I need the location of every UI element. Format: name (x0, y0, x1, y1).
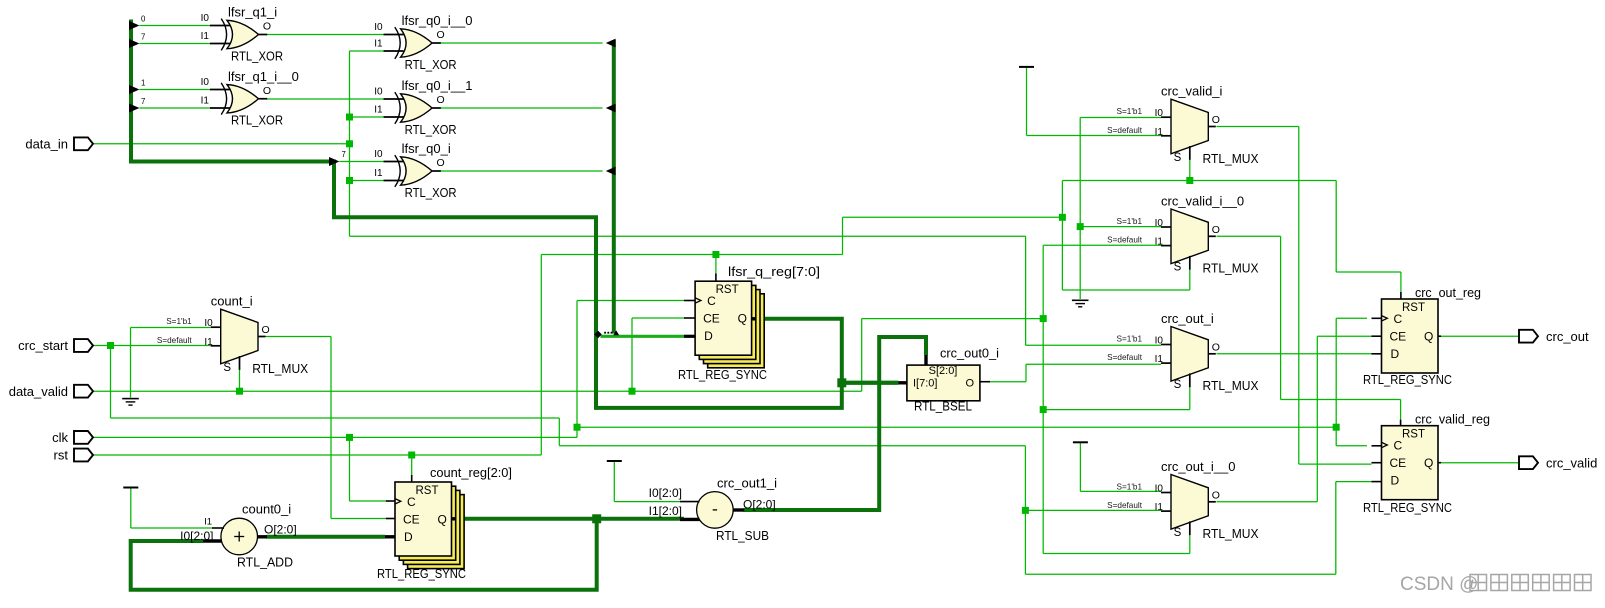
svg-text:0: 0 (141, 15, 146, 24)
svg-text:O[2:0]: O[2:0] (743, 498, 776, 512)
svg-text:data_valid: data_valid (9, 384, 68, 399)
svg-text:7: 7 (141, 97, 145, 106)
svg-text:RTL_XOR: RTL_XOR (405, 57, 457, 72)
svg-text:O: O (1212, 489, 1220, 501)
svg-text:RTL_REG_SYNC: RTL_REG_SYNC (678, 367, 767, 382)
svg-text:O: O (262, 324, 270, 336)
svg-text:RTL_MUX: RTL_MUX (1203, 378, 1259, 393)
svg-text:count0_i: count0_i (242, 502, 291, 517)
svg-text:data_in: data_in (25, 137, 68, 152)
svg-text:S: S (223, 362, 231, 374)
svg-text:I1: I1 (201, 31, 210, 42)
svg-text:crc_out_i: crc_out_i (1161, 311, 1214, 326)
svg-text:I1: I1 (1155, 237, 1164, 248)
svg-text:CE: CE (403, 512, 420, 526)
svg-text:I1: I1 (374, 168, 383, 179)
svg-text:S=default: S=default (1107, 126, 1143, 135)
svg-text:I1: I1 (374, 104, 383, 115)
svg-text:I[7:0]: I[7:0] (913, 378, 937, 390)
svg-text:S=1'b1: S=1'b1 (1117, 217, 1143, 226)
svg-text:S=default: S=default (1107, 236, 1143, 245)
svg-text:S: S (1174, 379, 1182, 391)
svg-text:O: O (1212, 341, 1220, 353)
svg-text:S: S (1174, 527, 1182, 539)
svg-text:C: C (1394, 439, 1403, 453)
svg-text:count_i: count_i (211, 294, 253, 309)
svg-text:crc_out_reg: crc_out_reg (1415, 285, 1481, 300)
svg-text:O: O (966, 378, 975, 390)
svg-text:1: 1 (141, 79, 145, 88)
svg-text:I1[2:0]: I1[2:0] (649, 504, 682, 518)
svg-text:I1: I1 (1155, 502, 1164, 513)
svg-text:RTL_XOR: RTL_XOR (405, 185, 457, 200)
svg-text:RST: RST (716, 284, 739, 296)
svg-text:I0: I0 (204, 318, 213, 329)
svg-text:D: D (404, 530, 413, 544)
svg-text:D: D (704, 329, 713, 343)
svg-text:RTL_MUX: RTL_MUX (1203, 261, 1259, 276)
svg-text:crc_valid_i__0: crc_valid_i__0 (1161, 194, 1244, 209)
svg-text:RTL_BSEL: RTL_BSEL (914, 399, 972, 414)
svg-text:I0: I0 (1155, 336, 1164, 347)
svg-text:rst: rst (54, 448, 69, 463)
svg-text:RTL_MUX: RTL_MUX (1203, 151, 1259, 166)
svg-text:lfsr_q0_i__1: lfsr_q0_i__1 (402, 78, 473, 93)
svg-text:Q: Q (1424, 456, 1433, 470)
svg-text:Q: Q (438, 512, 447, 526)
svg-text:lfsr_q0_i: lfsr_q0_i (402, 141, 451, 156)
svg-text:S: S (1174, 152, 1182, 164)
svg-text:C: C (707, 294, 716, 308)
svg-text:RTL_REG_SYNC: RTL_REG_SYNC (1363, 372, 1452, 387)
svg-text:S[2:0]: S[2:0] (929, 365, 958, 377)
svg-text:CE: CE (703, 312, 720, 326)
svg-text:I1: I1 (374, 38, 383, 49)
svg-text:RST: RST (416, 485, 439, 497)
svg-text:RTL_XOR: RTL_XOR (231, 113, 283, 128)
svg-text:crc_valid_i: crc_valid_i (1161, 84, 1223, 99)
svg-text:I0: I0 (201, 77, 210, 88)
svg-text:RTL_MUX: RTL_MUX (1203, 526, 1259, 541)
svg-text:crc_out0_i: crc_out0_i (940, 346, 999, 361)
svg-text:D: D (1391, 474, 1400, 488)
svg-text:D: D (1391, 347, 1400, 361)
svg-text:C: C (1394, 312, 1403, 326)
svg-text:I1: I1 (201, 95, 210, 106)
svg-text:lfsr_q_reg[7:0]: lfsr_q_reg[7:0] (728, 264, 820, 279)
svg-text:S=1'b1: S=1'b1 (166, 317, 192, 326)
svg-text:I0: I0 (1155, 484, 1164, 495)
svg-text:RST: RST (1402, 302, 1425, 314)
svg-text:I0: I0 (1155, 108, 1164, 119)
svg-text:I0[2:0]: I0[2:0] (180, 529, 213, 543)
svg-text:S=1'b1: S=1'b1 (1117, 335, 1143, 344)
svg-text:Q: Q (1424, 329, 1433, 343)
svg-text:crc_out_i__0: crc_out_i__0 (1161, 459, 1235, 474)
svg-text:RTL_REG_SYNC: RTL_REG_SYNC (1363, 500, 1452, 515)
svg-text:RST: RST (1402, 429, 1425, 441)
svg-text:I1: I1 (1155, 354, 1164, 365)
svg-text:I0[2:0]: I0[2:0] (649, 486, 682, 500)
svg-text:O: O (263, 21, 271, 33)
svg-text:I0: I0 (374, 86, 383, 97)
svg-text:O: O (437, 157, 445, 169)
svg-text:CSDN @: CSDN @ (1400, 574, 1478, 595)
svg-text:lfsr_q0_i__0: lfsr_q0_i__0 (402, 13, 473, 28)
svg-text:7: 7 (141, 33, 145, 42)
svg-text:RTL_XOR: RTL_XOR (405, 122, 457, 137)
svg-text:RTL_SUB: RTL_SUB (716, 528, 769, 543)
svg-text:O: O (1212, 224, 1220, 236)
svg-text:I0: I0 (1155, 218, 1164, 229)
svg-text:RTL_XOR: RTL_XOR (231, 48, 283, 63)
svg-text:lfsr_q1_i: lfsr_q1_i (228, 5, 277, 20)
svg-text:lfsr_q1_i__0: lfsr_q1_i__0 (228, 69, 299, 84)
svg-text:C: C (407, 495, 416, 509)
svg-text:S=default: S=default (157, 336, 193, 345)
svg-text:O: O (1212, 114, 1220, 126)
svg-text:I1: I1 (204, 517, 212, 528)
svg-text:CE: CE (1390, 456, 1407, 470)
svg-text:I1: I1 (204, 337, 213, 348)
svg-text:crc_valid: crc_valid (1546, 455, 1597, 470)
svg-text:O: O (437, 29, 445, 41)
svg-text:S=1'b1: S=1'b1 (1117, 107, 1143, 116)
svg-text:crc_start: crc_start (18, 338, 68, 353)
svg-text:crc_out1_i: crc_out1_i (717, 476, 777, 491)
svg-text:O: O (263, 85, 271, 97)
svg-text:S=default: S=default (1107, 501, 1143, 510)
svg-text:7: 7 (342, 150, 346, 159)
svg-text:crc_out: crc_out (1546, 329, 1589, 344)
svg-text:I0: I0 (374, 22, 383, 33)
svg-text:count_reg[2:0]: count_reg[2:0] (430, 465, 512, 480)
svg-text:RTL_MUX: RTL_MUX (252, 361, 308, 376)
svg-text:I1: I1 (1155, 127, 1164, 138)
svg-text:O: O (437, 94, 445, 106)
svg-text:RTL_ADD: RTL_ADD (237, 555, 293, 570)
svg-text:clk: clk (52, 430, 68, 445)
svg-text:RTL_REG_SYNC: RTL_REG_SYNC (377, 566, 466, 581)
svg-text:crc_valid_reg: crc_valid_reg (1415, 412, 1490, 427)
svg-text:O[2:0]: O[2:0] (264, 523, 297, 537)
svg-text:I0: I0 (374, 149, 383, 160)
svg-text:I0: I0 (201, 13, 210, 24)
svg-text:S=1'b1: S=1'b1 (1117, 483, 1143, 492)
svg-text:Q: Q (738, 312, 747, 326)
svg-text:S=default: S=default (1107, 353, 1143, 362)
svg-text:S: S (1174, 262, 1182, 274)
svg-text:CE: CE (1390, 329, 1407, 343)
